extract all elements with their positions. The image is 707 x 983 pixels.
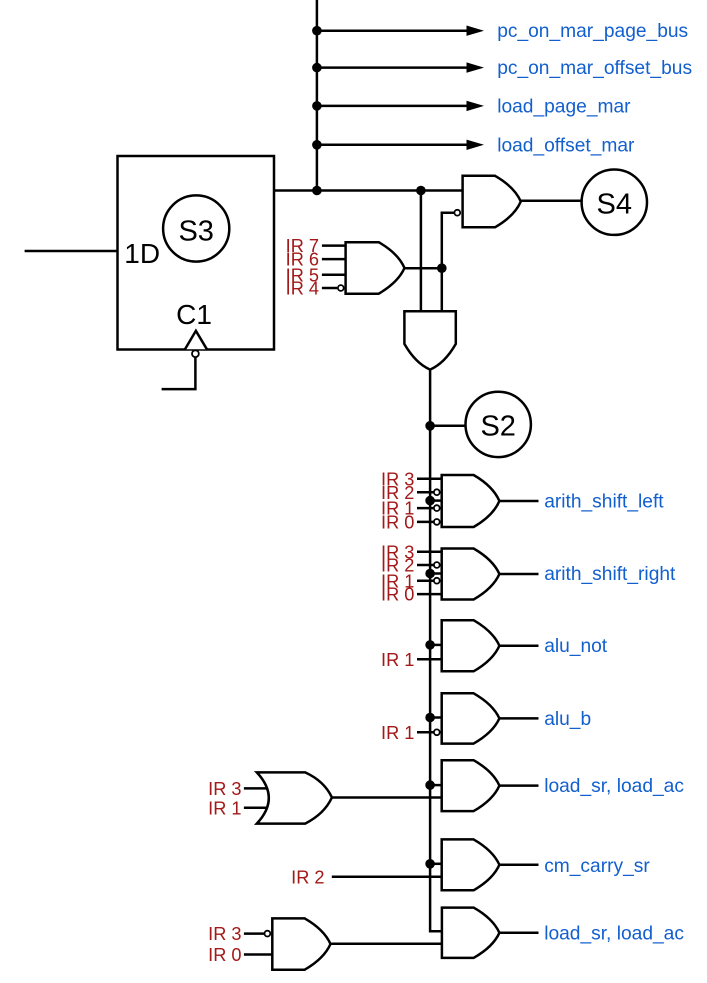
svg-text:arith_shift_right: arith_shift_right	[544, 564, 676, 585]
wire g2 output	[499, 573, 538, 576]
flip-flop clock bubble	[192, 350, 199, 357]
wire U2 output	[521, 200, 582, 203]
wire g7 output	[499, 932, 538, 935]
svg-text:C1: C1	[176, 299, 212, 330]
svg-text:alu_not: alu_not	[544, 636, 608, 657]
wire bottom and output	[331, 943, 442, 946]
bubble g4 IR1	[434, 729, 440, 735]
node junction dot row1	[312, 26, 322, 36]
bubble g1 IR2	[434, 489, 440, 495]
wire IR1 input g1	[417, 507, 434, 510]
node junction dot g4	[425, 713, 435, 723]
node junction dot on bus at output	[312, 186, 322, 196]
svg-text:1D: 1D	[124, 238, 160, 269]
bubble g2 IR2	[434, 562, 440, 568]
svg-text:load_page_mar: load_page_mar	[497, 96, 631, 117]
wire bus stub g2	[430, 572, 442, 575]
svg-text:IR 2: IR 2	[291, 867, 324, 887]
bubble g2 IR1	[434, 578, 440, 584]
bubble g1 IR0	[434, 519, 440, 525]
wire IR6 input	[322, 258, 346, 261]
bubble on U3 IR4 input	[338, 285, 344, 291]
wire IR1 input g4	[417, 731, 434, 734]
wire top bus vertical	[316, 0, 319, 191]
wire IR7 input	[322, 244, 346, 247]
and-gate G7 load_sr load_ac bottom	[442, 908, 500, 958]
svg-text:S3: S3	[178, 216, 213, 248]
and-gate G9 (IR3n and IR0)	[272, 918, 330, 969]
node junction dot S2	[425, 421, 435, 431]
wire g5 output	[499, 784, 538, 787]
state circle S2	[466, 392, 531, 457]
wire arrow pc_on_mar_page_bus	[317, 29, 468, 32]
wire IR0 input g2	[417, 593, 442, 596]
svg-text:IR 0: IR 0	[381, 513, 414, 533]
node junction dot g1	[425, 496, 435, 506]
wire IR3 input bottom and	[244, 932, 265, 935]
wire IR3 input g2	[417, 550, 442, 553]
wire IR0 input bottom and	[244, 953, 272, 956]
state circle S3	[163, 195, 229, 261]
node junction dot row4	[312, 140, 322, 150]
svg-text:IR 3: IR 3	[208, 779, 241, 799]
wire g1 output	[499, 500, 538, 503]
svg-text:IR 1: IR 1	[208, 798, 241, 818]
and-gate G5 load_sr load_ac	[442, 760, 500, 811]
node junction dot g3	[425, 640, 435, 650]
svg-text:IR 1: IR 1	[381, 723, 414, 743]
or-gate G8	[257, 772, 332, 823]
svg-text:load_sr, load_ac: load_sr, load_ac	[544, 776, 684, 797]
wire bus stub g4	[430, 716, 442, 719]
svg-text:load_sr, load_ac: load_sr, load_ac	[544, 923, 684, 944]
svg-text:IR 4: IR 4	[286, 279, 319, 299]
wire bus1 vertical	[420, 191, 423, 312]
wire IR2 input g1	[417, 491, 434, 494]
svg-text:IR 3: IR 3	[208, 924, 241, 944]
wire IR0 input g1	[417, 521, 434, 524]
wire IR1 input g2	[417, 579, 434, 582]
wire bus stub g5	[430, 784, 442, 787]
and-gate G2 arith_shift_right	[442, 549, 500, 600]
wire IR5 input	[322, 273, 346, 276]
svg-text:alu_b: alu_b	[544, 709, 591, 730]
bubble on U2 lower input	[454, 210, 460, 216]
wire flip-flop output	[274, 189, 463, 192]
wire IR1 input or-gate	[244, 806, 269, 809]
wire S4 gate lower input with elbow	[442, 213, 455, 312]
svg-text:S4: S4	[597, 189, 632, 221]
wire IR3 input g1	[417, 478, 442, 481]
node junction dot g6	[425, 859, 435, 869]
bubble bottom and IR3	[265, 931, 271, 937]
wire bus stub g1	[430, 499, 442, 502]
and-gate U4 (downward)	[404, 311, 455, 369]
bubble g1 IR1	[434, 505, 440, 511]
wire arrow load_offset_mar	[317, 144, 468, 147]
wire g3 output	[499, 644, 538, 647]
svg-text:IR 1: IR 1	[381, 650, 414, 670]
node junction dot g5	[425, 780, 435, 790]
svg-text:IR 0: IR 0	[208, 945, 241, 965]
wire to S2	[430, 425, 466, 428]
flip-flop clock edge triangle	[185, 331, 207, 350]
wire bus stub g3	[430, 644, 442, 647]
wire 1D input	[25, 250, 118, 253]
and-gate U2 (S4 gate)	[463, 176, 521, 228]
node junction dot row2	[312, 63, 322, 73]
svg-text:cm_carry_sr: cm_carry_sr	[544, 856, 650, 877]
wire g4 output	[499, 717, 538, 720]
wire IR3 input or-gate	[244, 787, 269, 790]
wire IR4 input	[322, 287, 337, 290]
node junction dot row3	[312, 101, 322, 111]
and-gate G3 alu_not	[442, 620, 500, 671]
and-gate G1 arith_shift_left	[442, 475, 500, 527]
svg-text:S2: S2	[480, 411, 515, 443]
node junction dot g2	[425, 569, 435, 579]
svg-text:arith_shift_left: arith_shift_left	[544, 492, 664, 513]
state circle S4	[582, 170, 647, 235]
wire clock input	[162, 357, 196, 389]
wire IR2 input g2	[417, 564, 434, 567]
wire main vertical bus	[430, 370, 442, 932]
svg-text:load_offset_mar: load_offset_mar	[497, 135, 635, 156]
svg-text:pc_on_mar_offset_bus: pc_on_mar_offset_bus	[497, 58, 692, 79]
svg-text:IR 0: IR 0	[381, 585, 414, 605]
svg-text:pc_on_mar_page_bus: pc_on_mar_page_bus	[497, 21, 688, 42]
wire arrow load_page_mar	[317, 105, 468, 108]
node junction dot U3 output to bus2	[437, 263, 447, 273]
and-gate G4 alu_b	[442, 693, 500, 743]
wire arrow pc_on_mar_offset_bus	[317, 66, 468, 69]
flip-flop U1 box	[118, 156, 275, 350]
and-gate G6 cm_carry_sr	[442, 839, 500, 890]
wire IR2 input g6	[332, 875, 442, 878]
wire U3 output	[405, 267, 442, 270]
wire bus stub g6	[430, 863, 442, 866]
and-gate U3 (IR7-IR4 decode)	[346, 242, 405, 294]
node junction dot bus1 top	[416, 186, 426, 196]
wire IR1 input g3	[417, 658, 442, 661]
wire g6 output	[499, 864, 538, 867]
wire or-gate output	[332, 796, 442, 799]
